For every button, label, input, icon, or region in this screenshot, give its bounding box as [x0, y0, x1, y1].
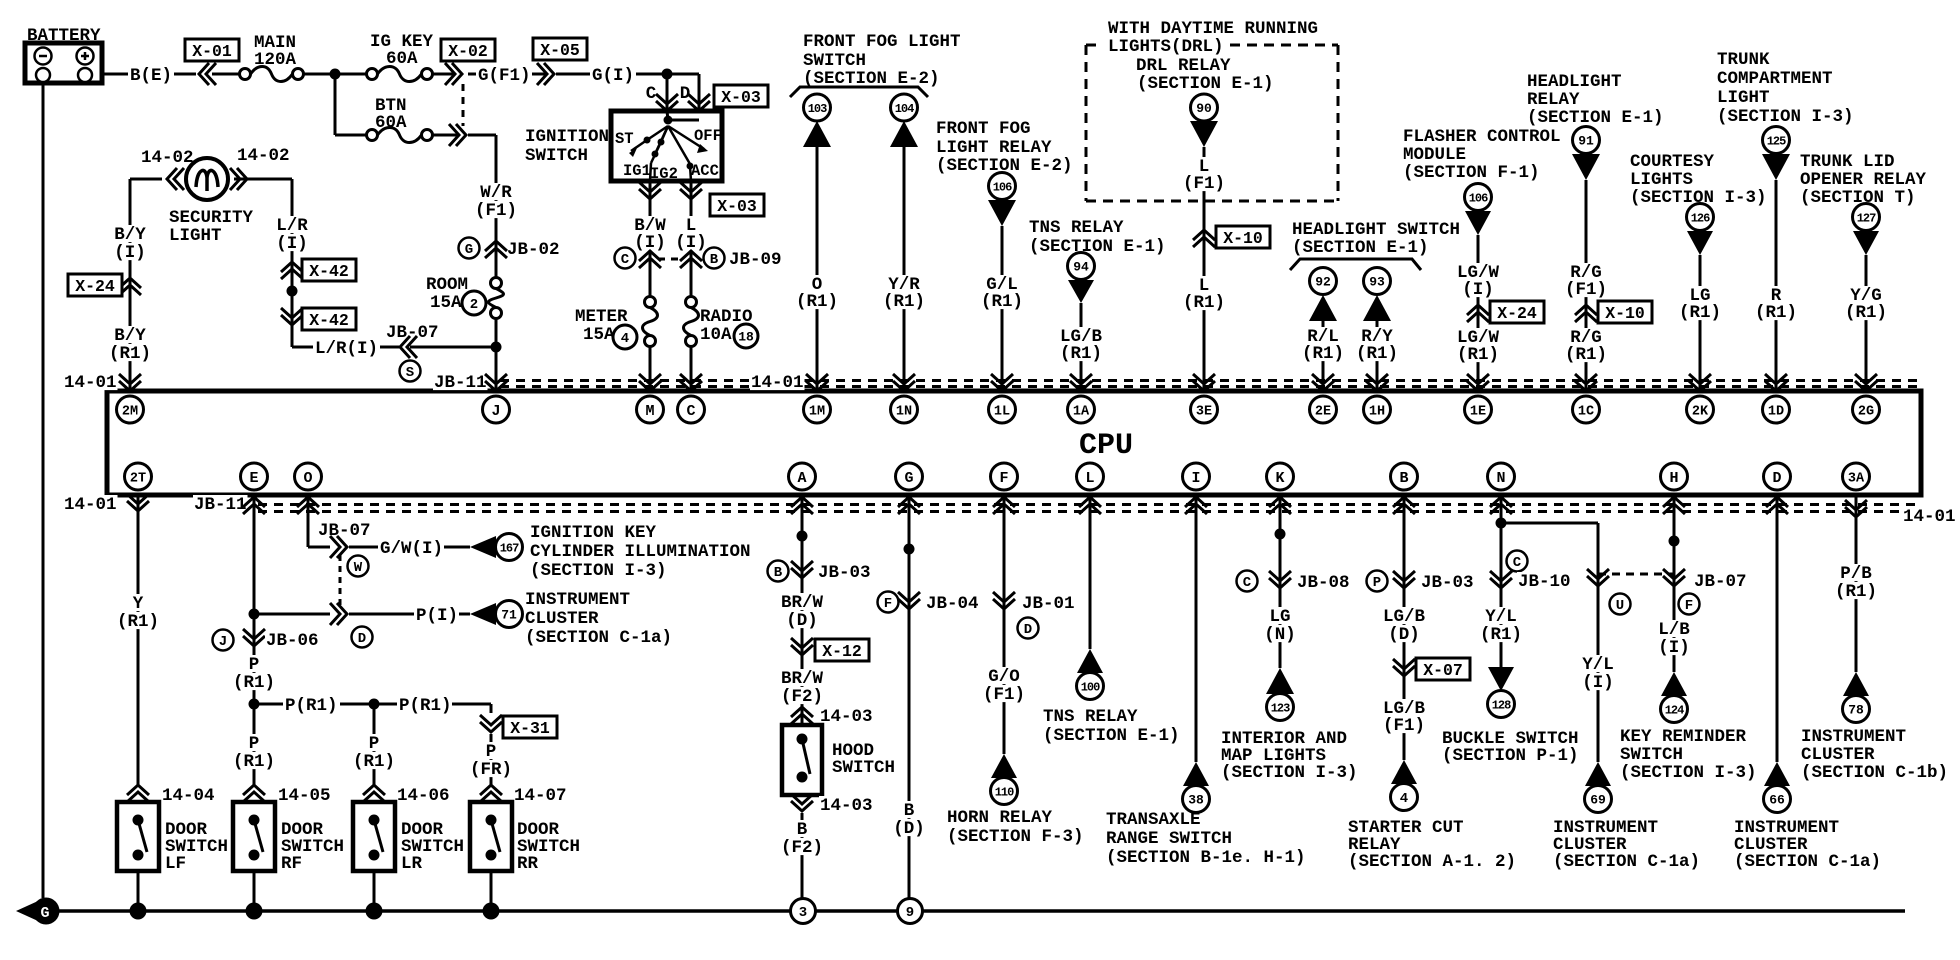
svg-text:O: O [303, 470, 312, 487]
svg-text:15A: 15A [430, 293, 462, 313]
svg-text:OFF: OFF [694, 127, 722, 145]
svg-text:SWITCH: SWITCH [832, 758, 895, 778]
CPU pin H with bus chevron [1661, 463, 1688, 514]
junction JB-07 dashed link [1587, 569, 1748, 615]
CPU pin 2M with bus chevron [117, 374, 144, 423]
wire LG/W(R1) to CPU 1E [1456, 328, 1500, 365]
ground terminal 9 [898, 899, 923, 924]
fuse ROOM 15A [426, 275, 504, 319]
svg-text:F: F [999, 470, 1008, 487]
svg-text:JB-10: JB-10 [1518, 572, 1571, 592]
connector 128 buckle switch [1442, 667, 1579, 766]
svg-text:J: J [491, 403, 500, 420]
svg-text:(I): (I) [1582, 673, 1614, 693]
svg-text:JB-03: JB-03 [818, 563, 871, 583]
svg-text:L/R: L/R [276, 216, 308, 236]
wire battery to ground bus [42, 83, 45, 898]
svg-text:X-10: X-10 [1223, 229, 1263, 248]
CPU pin C with bus chevron [678, 374, 705, 423]
svg-text:JB-01: JB-01 [1022, 594, 1075, 614]
wire B/W(I) ignition to meter fuse [649, 181, 652, 296]
svg-text:4: 4 [621, 331, 629, 347]
svg-text:ACC: ACC [691, 162, 719, 180]
svg-text:2: 2 [470, 297, 478, 313]
svg-text:FRONT FOG: FRONT FOG [936, 119, 1031, 139]
svg-text:(R1): (R1) [981, 292, 1023, 312]
svg-text:L/R(I): L/R(I) [315, 339, 378, 359]
svg-text:SWITCH: SWITCH [525, 146, 588, 166]
svg-text:4: 4 [1400, 791, 1408, 807]
svg-text:D: D [358, 631, 366, 647]
svg-text:(D): (D) [893, 819, 925, 839]
svg-text:93: 93 [1369, 275, 1385, 290]
svg-text:(R1): (R1) [1183, 293, 1225, 313]
svg-text:JB-07: JB-07 [318, 521, 371, 541]
label 14-01 top mid [750, 373, 805, 393]
svg-text:FLASHER CONTROL: FLASHER CONTROL [1403, 127, 1561, 147]
svg-text:IGNITION: IGNITION [525, 127, 609, 147]
svg-text:WITH DAYTIME RUNNING: WITH DAYTIME RUNNING [1108, 19, 1318, 39]
CPU pin D with bus chevron [1764, 463, 1791, 514]
CPU pin 2G with bus chevron [1853, 374, 1880, 423]
junction JB-04 [878, 592, 980, 615]
svg-text:110: 110 [995, 785, 1014, 799]
ground symbol G [16, 898, 60, 925]
svg-text:(F1): (F1) [1383, 716, 1425, 736]
svg-text:106: 106 [1469, 191, 1488, 205]
CPU pin 3E with bus chevron [1191, 374, 1218, 423]
svg-text:X-31: X-31 [510, 719, 550, 738]
connector X-10 on R/G wire [1575, 301, 1652, 323]
ground node RR [483, 903, 500, 920]
door switch RF [233, 802, 344, 911]
svg-text:Y: Y [133, 594, 144, 614]
svg-text:X-24: X-24 [75, 277, 115, 296]
node room fuse junction [491, 342, 502, 353]
headlight relay label [1527, 72, 1664, 128]
svg-text:ST: ST [615, 130, 634, 148]
svg-text:LG: LG [1269, 607, 1290, 627]
svg-text:G: G [904, 470, 913, 487]
svg-text:(F2): (F2) [781, 687, 823, 707]
svg-text:X-42: X-42 [309, 311, 349, 330]
connector 90 DRL relay [1190, 94, 1218, 147]
svg-text:(SECTION F-3): (SECTION F-3) [947, 827, 1084, 847]
svg-text:A: A [797, 470, 806, 487]
svg-text:14-01: 14-01 [751, 373, 804, 393]
svg-text:JB-11: JB-11 [434, 373, 487, 393]
svg-text:1H: 1H [1369, 404, 1385, 419]
svg-text:(SECTION I-3): (SECTION I-3) [1717, 107, 1854, 127]
connector X-12 [780, 638, 869, 707]
wire BR/W CPU A to hood switch [797, 495, 808, 723]
svg-text:(R1): (R1) [1565, 345, 1607, 365]
svg-text:JB-11: JB-11 [194, 495, 247, 515]
svg-text:S: S [406, 365, 414, 381]
svg-text:SWITCH: SWITCH [803, 51, 866, 71]
svg-text:D: D [1024, 622, 1032, 638]
fuse IG KEY 60A [367, 32, 456, 82]
svg-text:P: P [486, 742, 497, 762]
CPU pin B with bus chevron [1391, 463, 1418, 514]
security light bulb [130, 146, 292, 246]
wire P(R1) label upper [232, 655, 276, 693]
svg-text:14-02: 14-02 [237, 146, 290, 166]
junction JB-09 [615, 248, 782, 271]
CPU pin 3A with bus chevron [1843, 463, 1870, 517]
connector 127 trunk lid opener relay [1853, 204, 1880, 256]
svg-text:1C: 1C [1578, 404, 1594, 419]
svg-text:14-01: 14-01 [64, 495, 117, 515]
connector 125 trunk compartment light [1762, 127, 1790, 181]
svg-text:JB-04: JB-04 [926, 594, 979, 614]
wire L/R(I) to JB-07 [292, 323, 496, 359]
wire R/Y(R1) to CPU 1H [1355, 321, 1399, 391]
svg-text:P/B: P/B [1840, 564, 1872, 584]
battery B+ / B- terminals [25, 26, 102, 83]
junction JB-03 B [1367, 571, 1475, 646]
CPU pin 1E with bus chevron [1465, 374, 1492, 423]
svg-text:(F1): (F1) [475, 201, 517, 221]
svg-text:P: P [249, 655, 260, 675]
connector 93 headlight switch [1363, 268, 1391, 322]
node X-42 junction [287, 286, 298, 297]
svg-text:(D): (D) [786, 611, 818, 631]
wire Y/R(R1) to CPU 1N [882, 147, 926, 391]
svg-text:X-10: X-10 [1605, 304, 1645, 323]
CPU pin O with bus chevron [295, 463, 322, 514]
svg-text:X-01: X-01 [192, 42, 232, 61]
node E branch junction [249, 609, 260, 620]
svg-text:W: W [354, 560, 363, 576]
connector 78 instrument cluster [1801, 672, 1948, 783]
svg-text:14-06: 14-06 [397, 786, 450, 806]
svg-text:F: F [884, 596, 892, 612]
svg-text:LR: LR [401, 854, 423, 874]
ignition switch [525, 111, 722, 183]
svg-text:KEY REMINDER: KEY REMINDER [1620, 727, 1747, 747]
svg-text:IGNITION KEY: IGNITION KEY [530, 523, 657, 543]
svg-text:C: C [1243, 575, 1252, 591]
node main feed junction [330, 69, 341, 80]
svg-text:(R1): (R1) [1302, 344, 1344, 364]
svg-text:100: 100 [1081, 680, 1100, 694]
DRL relay label [1136, 56, 1274, 94]
connector 104 front fog light switch [890, 94, 918, 147]
connector X-24 left [68, 274, 141, 296]
svg-text:14-02: 14-02 [141, 148, 194, 168]
connector X-24 on LG/W wire [1467, 301, 1544, 323]
svg-text:U: U [1616, 598, 1624, 614]
CPU pin F with bus chevron [991, 463, 1018, 514]
svg-text:M: M [645, 403, 654, 420]
svg-text:3A: 3A [1848, 471, 1865, 486]
svg-text:C: C [621, 252, 630, 268]
connector 14-03 lower [791, 794, 874, 816]
connector 106 flasher control module [1465, 184, 1492, 236]
CPU pin 1N with bus chevron [891, 374, 918, 423]
svg-text:INSTRUMENT: INSTRUMENT [525, 590, 630, 610]
label 14-01 bottom right [1902, 507, 1957, 527]
junction JB-08 [1237, 571, 1351, 646]
svg-text:COURTESY: COURTESY [1630, 152, 1715, 172]
svg-text:(R1): (R1) [233, 752, 275, 772]
label 14-01 bottom left [63, 495, 118, 515]
TNS relay label top [1029, 218, 1166, 257]
svg-text:LIGHT: LIGHT [169, 226, 222, 246]
CPU pin 1M with bus chevron [804, 374, 831, 423]
svg-text:HORN RELAY: HORN RELAY [947, 808, 1053, 828]
CPU pin 2T with bus chevron [125, 463, 152, 511]
connector 38 transaxle range switch [1106, 762, 1306, 868]
svg-text:C: C [646, 84, 657, 104]
svg-text:CLUSTER: CLUSTER [1801, 745, 1875, 765]
hood switch [782, 725, 895, 795]
CPU pin N with bus chevron [1488, 463, 1515, 514]
svg-text:90: 90 [1196, 101, 1212, 116]
svg-text:H: H [1669, 470, 1678, 487]
svg-text:3E: 3E [1196, 404, 1212, 419]
svg-text:L: L [1085, 470, 1094, 487]
svg-text:X-05: X-05 [540, 41, 580, 60]
svg-text:(R1): (R1) [1356, 344, 1398, 364]
svg-text:B(E): B(E) [130, 66, 172, 86]
CPU pin K with bus chevron [1267, 463, 1294, 514]
svg-text:60A: 60A [386, 49, 418, 69]
wire R/G(F1) headlight relay [1564, 180, 1608, 391]
connector 91 headlight relay [1572, 127, 1600, 181]
svg-text:RELAY: RELAY [1527, 90, 1580, 110]
svg-text:(SECTION C-1b): (SECTION C-1b) [1801, 763, 1948, 783]
svg-text:W/R: W/R [480, 183, 512, 203]
svg-text:TRUNK: TRUNK [1717, 50, 1770, 70]
CPU pin A with bus chevron [789, 463, 816, 514]
svg-text:69: 69 [1590, 793, 1606, 808]
junction JB-01 [982, 592, 1076, 705]
connector 71 instrument cluster [470, 590, 672, 648]
svg-text:D: D [1772, 470, 1781, 487]
svg-text:P: P [1373, 575, 1381, 591]
svg-text:P(R1): P(R1) [285, 696, 338, 716]
wire L(I) ignition to radio fuse [690, 181, 693, 296]
svg-text:(SECTION E-1): (SECTION E-1) [1029, 237, 1166, 257]
door switch RR [470, 802, 580, 911]
svg-text:B: B [710, 252, 719, 268]
fuse BTN 60A [335, 74, 496, 146]
svg-text:Y/L: Y/L [1485, 607, 1517, 627]
svg-text:X-07: X-07 [1423, 661, 1463, 680]
svg-text:TRANSAXLE: TRANSAXLE [1106, 810, 1201, 830]
svg-text:COMPARTMENT: COMPARTMENT [1717, 69, 1833, 89]
wire B(D) CPU G to ground 9 [892, 495, 926, 898]
svg-text:(SECTION F-1): (SECTION F-1) [1403, 163, 1540, 183]
svg-text:15A: 15A [583, 325, 615, 345]
svg-text:HEADLIGHT SWITCH: HEADLIGHT SWITCH [1292, 220, 1460, 240]
wire B(E) battery feed [102, 66, 196, 86]
svg-text:124: 124 [1665, 703, 1684, 717]
connector X-10 on L wire [1193, 226, 1270, 248]
junction JB-11 S [400, 361, 421, 382]
connector 167 ignition key cylinder illumination [470, 523, 751, 581]
svg-text:18: 18 [738, 330, 754, 345]
connector 123 interior and map lights [1221, 668, 1358, 783]
svg-text:(R1): (R1) [1060, 344, 1102, 364]
svg-text:(R1): (R1) [1845, 303, 1887, 323]
connector 66 instrument cluster [1734, 762, 1881, 872]
svg-text:LIGHT: LIGHT [1717, 88, 1770, 108]
svg-text:1L: 1L [994, 404, 1010, 419]
CPU pin 1D with bus chevron [1763, 374, 1790, 423]
wire R/G(R1) to CPU 1C [1564, 328, 1608, 365]
svg-text:(R1): (R1) [353, 752, 395, 772]
svg-text:(R1): (R1) [796, 292, 838, 312]
ground node LR [366, 903, 383, 920]
svg-text:66: 66 [1769, 793, 1785, 808]
wire P(I) to instrument cluster [259, 603, 470, 626]
svg-text:(N): (N) [1264, 625, 1296, 645]
svg-text:METER: METER [575, 307, 628, 327]
connector 110 horn relay [947, 754, 1084, 847]
wire LG/W(I) flasher [1456, 235, 1500, 391]
headlight switch label [1290, 220, 1460, 270]
svg-text:CYLINDER ILLUMINATION: CYLINDER ILLUMINATION [530, 542, 751, 562]
svg-text:B/Y: B/Y [114, 326, 146, 346]
svg-text:X-03: X-03 [721, 88, 761, 107]
svg-text:MODULE: MODULE [1403, 145, 1466, 165]
node P(R1) splice [249, 699, 260, 710]
wire L(F1) DRL relay [1182, 147, 1226, 391]
svg-text:C: C [686, 403, 695, 420]
CPU pin G with bus chevron [896, 463, 923, 514]
wire B/Y(R1) to CPU 2M [108, 326, 152, 364]
svg-text:1D: 1D [1768, 404, 1784, 419]
svg-text:104: 104 [895, 102, 914, 116]
svg-text:LIGHT RELAY: LIGHT RELAY [936, 138, 1052, 158]
svg-text:14-04: 14-04 [162, 786, 215, 806]
svg-text:CPU: CPU [1079, 429, 1133, 463]
svg-text:167: 167 [500, 541, 519, 555]
svg-text:14-05: 14-05 [278, 786, 331, 806]
fuse MAIN 120A [212, 33, 366, 82]
svg-text:3: 3 [799, 905, 807, 921]
svg-text:9: 9 [906, 905, 914, 921]
wire R/L(R1) to CPU 2E [1301, 321, 1345, 391]
label 14-01 top left [63, 373, 118, 393]
wire L(R1) to CPU 3E [1182, 276, 1226, 313]
svg-text:I: I [1191, 470, 1200, 487]
connector 69 instrument cluster [1553, 762, 1700, 872]
svg-text:SECURITY: SECURITY [169, 208, 254, 228]
wire B(F2) to ground 3 [780, 813, 824, 898]
CPU pin 1L with bus chevron [989, 374, 1016, 423]
connector 14-05 [243, 785, 332, 806]
connector 14-03 upper [791, 707, 874, 727]
wire G/W(I) CPU O to key illumination [308, 495, 470, 559]
label JB-11 top [433, 373, 488, 393]
fuse METER 15A [575, 297, 658, 392]
ground node RF [246, 903, 263, 920]
svg-text:JB-06: JB-06 [266, 631, 319, 651]
svg-text:JB-02: JB-02 [507, 240, 560, 260]
svg-text:(FR): (FR) [470, 760, 512, 780]
svg-text:1E: 1E [1470, 404, 1486, 419]
front fog light switch label [790, 32, 961, 97]
trunk lid opener relay label [1800, 152, 1927, 208]
svg-text:X-24: X-24 [1497, 304, 1537, 323]
svg-text:E: E [249, 470, 258, 487]
svg-text:TRUNK LID: TRUNK LID [1800, 152, 1895, 172]
svg-text:(SECTION A-1. 2): (SECTION A-1. 2) [1348, 852, 1516, 872]
svg-text:X-02: X-02 [448, 42, 488, 61]
svg-text:OPENER RELAY: OPENER RELAY [1800, 170, 1927, 190]
svg-text:(F1): (F1) [1565, 280, 1607, 300]
svg-text:G(I): G(I) [592, 66, 634, 86]
svg-text:(R1): (R1) [109, 344, 151, 364]
CPU pin E with bus chevron [241, 463, 268, 514]
svg-text:G: G [465, 242, 473, 258]
connector 4 starter cut relay [1348, 760, 1516, 872]
wire B/Y(I) security light left [113, 179, 147, 391]
svg-text:(R1): (R1) [1480, 625, 1522, 645]
svg-text:FRONT FOG LIGHT: FRONT FOG LIGHT [803, 32, 961, 52]
svg-text:(SECTION E-1): (SECTION E-1) [1137, 74, 1274, 94]
svg-text:J: J [219, 634, 227, 650]
wire O(R1) to CPU 1M [795, 147, 839, 391]
CPU pin 2K with bus chevron [1687, 374, 1714, 423]
CPU pin 1C with bus chevron [1573, 374, 1600, 423]
wire LG/B(R1) to CPU 1A [1059, 303, 1103, 391]
svg-text:(SECTION E-1): (SECTION E-1) [1043, 726, 1180, 746]
connector X-31 [480, 715, 557, 738]
svg-text:123: 123 [1271, 701, 1290, 715]
svg-text:TNS RELAY: TNS RELAY [1029, 218, 1124, 238]
svg-text:91: 91 [1578, 134, 1594, 149]
svg-text:1A: 1A [1073, 404, 1090, 419]
connector 14-07 [480, 785, 568, 806]
wire W/R(F1) BTN to room fuse [474, 135, 518, 391]
connector 14-06 [363, 785, 451, 806]
svg-text:P(R1): P(R1) [399, 696, 452, 716]
svg-text:RF: RF [281, 854, 302, 874]
svg-text:(F2): (F2) [781, 838, 823, 858]
CPU pin 2E with bus chevron [1310, 374, 1337, 423]
wire P(R1) CPU E to JB-06 [253, 495, 256, 785]
svg-text:92: 92 [1315, 275, 1331, 290]
door switch LF [117, 802, 228, 911]
CPU pin L with bus chevron [1077, 463, 1104, 514]
svg-text:RANGE SWITCH: RANGE SWITCH [1106, 829, 1232, 849]
svg-text:1M: 1M [809, 404, 825, 419]
door switch LR [353, 802, 464, 911]
svg-text:(I): (I) [1658, 638, 1690, 658]
svg-text:LF: LF [165, 854, 186, 874]
junction JB-06 [213, 629, 320, 651]
svg-text:BR/W: BR/W [781, 593, 824, 613]
svg-text:K: K [1275, 470, 1284, 487]
CPU box [107, 391, 1921, 495]
connector X-01 [185, 39, 239, 85]
connector W-D dashed link [340, 555, 373, 648]
svg-text:(F1): (F1) [983, 685, 1025, 705]
wire Y/L(R1) CPU N to buckle switch [1496, 495, 1599, 762]
svg-text:B: B [904, 801, 915, 821]
svg-text:G/O: G/O [988, 667, 1020, 687]
svg-text:(SECTION B-1e. H-1): (SECTION B-1e. H-1) [1106, 848, 1306, 868]
wire P/B(R1) CPU 3A to instrument cluster 78 [1834, 495, 1878, 672]
wire LG(N) CPU K to interior lights [1275, 495, 1286, 668]
svg-text:10A: 10A [700, 325, 732, 345]
svg-text:B: B [1399, 470, 1408, 487]
